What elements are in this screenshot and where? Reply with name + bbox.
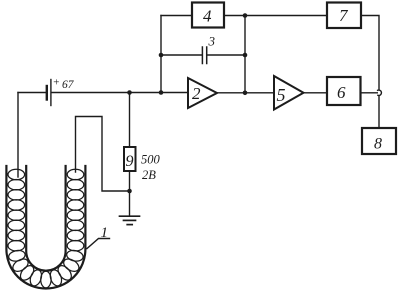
wire box4 out to box7	[224, 15, 327, 17]
wire ground stem	[129, 191, 131, 216]
U-tube outer wall	[6, 166, 85, 289]
wire left down to tube	[17, 93, 19, 178]
svg-text:3: 3	[208, 34, 216, 49]
node cap-left	[159, 53, 164, 58]
svg-text:67: 67	[62, 79, 75, 91]
svg-text:1: 1	[101, 225, 109, 241]
node box4-out	[243, 13, 248, 18]
wire capacitor line	[161, 54, 202, 56]
block 7	[327, 3, 361, 29]
wire top feedback left vertical	[160, 16, 162, 93]
svg-text:5: 5	[277, 85, 286, 105]
wire amp2 out	[217, 92, 274, 94]
node cap-right	[243, 53, 248, 58]
resistor R9	[124, 147, 136, 171]
node feedback-left	[159, 90, 164, 95]
op-amp U2	[188, 78, 217, 108]
wire box6 out	[361, 92, 378, 94]
label +67	[53, 77, 75, 92]
block 6	[327, 77, 361, 105]
label 500 2V	[141, 153, 161, 183]
wire battery main line	[18, 92, 46, 94]
svg-text:9: 9	[126, 153, 134, 170]
node ground-junction	[127, 189, 132, 194]
svg-text:6: 6	[337, 83, 346, 102]
coil 1	[8, 169, 84, 288]
svg-text:2В: 2В	[142, 168, 156, 182]
wire box7 out down	[361, 16, 379, 90]
svg-text:7: 7	[339, 6, 349, 25]
wire top line to box 4	[161, 15, 192, 17]
wire resistor drop	[129, 93, 131, 148]
U-tube inner wall	[26, 166, 65, 271]
node amp2-out	[243, 91, 248, 96]
block 8	[362, 128, 396, 154]
svg-text:8: 8	[374, 136, 382, 153]
svg-text:2: 2	[192, 84, 201, 103]
svg-text:+: +	[53, 77, 60, 89]
wire resistor to ground node	[129, 171, 131, 191]
label 1 leader	[87, 239, 110, 249]
connector hook	[378, 90, 382, 95]
svg-text:500: 500	[141, 153, 161, 167]
capacitor C3	[202, 47, 206, 64]
wire tube right arm loop	[76, 117, 130, 192]
wire down to box8	[378, 96, 380, 128]
battery B1	[47, 80, 51, 106]
wire feedback right vertical	[244, 16, 246, 93]
ground	[120, 216, 140, 224]
op-amp U5	[274, 76, 304, 110]
svg-text:4: 4	[203, 7, 212, 26]
wire amp5 out	[304, 92, 328, 94]
block 4	[192, 3, 224, 28]
node battery-resistor	[127, 90, 132, 95]
